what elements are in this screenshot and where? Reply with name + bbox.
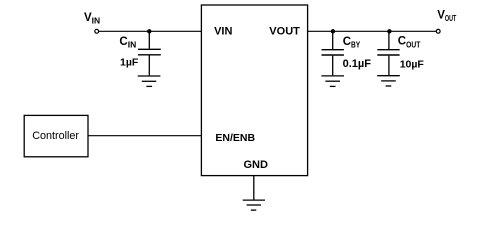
wire input [99, 30, 202, 32]
svg-text:10µF: 10µF [400, 58, 425, 70]
svg-text:VIN: VIN [214, 25, 232, 37]
pin label VIN [214, 25, 232, 37]
svg-text:GND: GND [244, 159, 269, 171]
svg-text:1µF: 1µF [120, 57, 139, 69]
pin label EN/ENB [215, 132, 255, 144]
ground GND1 [138, 76, 161, 86]
svg-text:Controller: Controller [32, 130, 79, 142]
ground GND2 [321, 76, 344, 87]
capacitor COUT [377, 31, 399, 75]
ground GND3 [377, 76, 400, 86]
label CIN [119, 36, 136, 50]
capacitor CIN [138, 31, 161, 75]
node VOUT label [437, 10, 456, 23]
wire output [308, 30, 436, 32]
controller box [24, 115, 88, 156]
label Controller [32, 130, 79, 142]
pin label GND [244, 159, 269, 171]
node VIN label [84, 12, 100, 26]
value 10uF [400, 58, 425, 70]
ground GND4 [243, 200, 265, 210]
svg-text:0.1µF: 0.1µF [343, 58, 372, 70]
junction CBY node [331, 29, 335, 33]
value 1uF [120, 57, 139, 69]
capacitor CBY [322, 31, 344, 75]
regulator U1 box [201, 5, 307, 176]
wire GND [253, 176, 255, 200]
svg-text:EN/ENB: EN/ENB [215, 132, 255, 144]
svg-text:VOUT: VOUT [269, 25, 300, 37]
terminal VOUT [436, 29, 440, 33]
label CBY [343, 36, 361, 50]
value 0.1uF [343, 58, 372, 70]
junction COUT node [387, 29, 391, 33]
terminal VIN [95, 29, 99, 33]
wire EN [88, 135, 201, 137]
junction input node [147, 29, 151, 33]
label COUT [398, 36, 421, 50]
pin label VOUT [269, 25, 300, 37]
